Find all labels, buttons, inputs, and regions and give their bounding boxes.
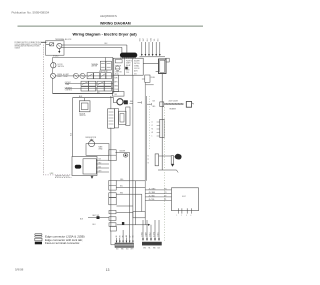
heater element: [164, 102, 184, 104]
svg-text:PUSH TO: PUSH TO: [126, 60, 133, 62]
svg-text:J2-3 BLU: J2-3 BLU: [149, 195, 155, 197]
row2 wire: [56, 75, 113, 77]
header rule: [18, 25, 204, 27]
wires to control board: [145, 190, 171, 200]
timer strip components: [108, 109, 115, 128]
svg-text:1B: 1B: [116, 236, 118, 238]
connector J15A pins: [117, 230, 133, 243]
heater housing capsule: [186, 102, 191, 108]
console top pins with labels: [142, 42, 160, 54]
svg-text:RED: RED: [120, 193, 123, 195]
svg-text:AEQ8000FS: AEQ8000FS: [100, 14, 117, 18]
row3 wire: [65, 82, 113, 84]
centrifugal switch dark contact: [75, 165, 81, 169]
svg-text:H1: H1: [151, 129, 153, 131]
svg-text:5Y: 5Y: [129, 236, 131, 238]
svg-text:WHT: WHT: [143, 38, 145, 41]
wire stub marks left of heater: [130, 102, 134, 104]
svg-text:WHT: WHT: [131, 249, 134, 251]
svg-text:SWITCH: SWITCH: [134, 63, 140, 65]
svg-text:YEL: YEL: [148, 247, 151, 249]
wire console to relay: [143, 63, 159, 65]
svg-text:RED: RED: [130, 101, 133, 103]
harness dashed wire: [149, 96, 151, 150]
svg-text:RED: RED: [99, 162, 102, 164]
svg-text:BLU: BLU: [126, 249, 129, 251]
terminal block meter circle: [57, 43, 62, 48]
relay aux box: [166, 58, 169, 62]
centrifugal switch box B: [72, 157, 97, 176]
svg-text:P4: P4: [165, 188, 167, 190]
timer output wires: [115, 152, 129, 154]
svg-text:2 WHT: 2 WHT: [146, 232, 148, 237]
fuse switch in terminal block: [46, 43, 50, 45]
fast-on on arrow wire: [122, 222, 124, 225]
svg-text:5/9/08: 5/9/08: [15, 268, 24, 272]
svg-text:BLU: BLU: [120, 186, 123, 188]
sensor S1 circle: [51, 63, 56, 68]
svg-text:WHT: WHT: [99, 170, 102, 172]
svg-text:LIMITER: LIMITER: [91, 66, 98, 68]
row3 thermostat boxes: [81, 81, 88, 86]
cycling thermostat narrow box on rail: [160, 119, 164, 137]
power relay K1: [159, 59, 167, 74]
drive motor circle: [89, 141, 95, 147]
thermal fuse box: [145, 75, 150, 82]
svg-text:MOTOR: MOTOR: [80, 113, 86, 115]
timer arrow wire: [117, 224, 148, 226]
motor enclosure box: [53, 58, 113, 94]
door switch assembly box: [79, 101, 90, 112]
svg-text:TMR: TMR: [114, 78, 117, 80]
svg-text:P1: P1: [165, 199, 167, 201]
svg-text:ORG: ORG: [150, 38, 152, 41]
motor enclosure bottom edge emphasis: [53, 92, 113, 94]
safety thermostat narrow box left: [155, 154, 158, 166]
note: power supply caution text: [15, 42, 49, 49]
svg-text:BELT SW: BELT SW: [93, 215, 100, 217]
svg-text:BLK: BLK: [71, 133, 73, 136]
harness junction box: [133, 212, 145, 218]
svg-text:4 ORG: 4 ORG: [154, 231, 156, 237]
console bottom cell: [113, 92, 125, 97]
svg-text:MTR: MTR: [114, 81, 117, 83]
svg-text:WIRING DIAGRAM: WIRING DIAGRAM: [100, 22, 131, 26]
svg-text:LIGHT: LIGHT: [57, 76, 62, 78]
svg-text:J2-2 RED: J2-2 RED: [149, 192, 156, 194]
svg-text:DRYNESS: DRYNESS: [65, 87, 72, 89]
wire from note to terminal block: [41, 41, 46, 43]
svg-text:Fast-on terminal connector.: Fast-on terminal connector.: [45, 241, 80, 245]
hi-limit thermostat cluster: [159, 155, 171, 157]
svg-text:BLU: BLU: [99, 166, 102, 168]
svg-text:OUTLET: OUTLET: [65, 82, 71, 84]
legend symbol locking connector: [35, 238, 42, 241]
svg-text:J2-4 YEL: J2-4 YEL: [149, 199, 155, 201]
svg-text:RED: RED: [153, 106, 156, 108]
BLK wire vertical: [72, 98, 74, 157]
belt switch wire: [88, 217, 109, 219]
timer strip upper: [113, 75, 119, 91]
timer main vertical: [110, 96, 112, 109]
heater relay box on rail: [160, 102, 164, 107]
console top pin labels: [140, 38, 160, 41]
svg-text:Publication No. 5995438534: Publication No. 5995438534: [12, 11, 50, 15]
svg-text:OFF: OFF: [114, 94, 117, 96]
svg-text:SWITCH: SWITCH: [58, 66, 65, 68]
motor ground arrow: [91, 175, 93, 178]
electronic control board: [172, 188, 199, 211]
heater ground dashed: [163, 107, 165, 242]
svg-text:3 BLU: 3 BLU: [150, 232, 152, 236]
wire harness left ladder: [129, 153, 131, 238]
svg-text:BLK: BLK: [153, 101, 156, 103]
svg-text:RED: RED: [153, 247, 156, 249]
legend symbol fast-on: [35, 242, 42, 245]
console contact labels: [114, 78, 118, 97]
push to start switch circle: [117, 99, 123, 105]
console edge connector dark capsule: [120, 53, 137, 57]
svg-text:HI-LIMIT: HI-LIMIT: [63, 74, 69, 76]
svg-text:COOL: COOL: [114, 89, 118, 91]
connector J15A body: [115, 243, 134, 247]
svg-text:TEMP SW: TEMP SW: [115, 71, 122, 73]
svg-text:240V 5400W: 240V 5400W: [169, 100, 179, 102]
terminal block TB1: [46, 41, 65, 55]
J15B labels above pins: [142, 231, 160, 237]
bus wire L2: [62, 46, 122, 48]
connector J15B body: [142, 242, 162, 246]
svg-text:P3: P3: [165, 192, 167, 194]
BLK wire horizontal: [73, 98, 117, 103]
svg-text:RED: RED: [121, 249, 124, 251]
legend symbol edge connector: [35, 234, 42, 236]
svg-text:BLK: BLK: [116, 249, 119, 251]
svg-text:Wiring Diagram - Electric Drye: Wiring Diagram - Electric Dryer (ad): [73, 33, 138, 37]
svg-text:BUZZER: BUZZER: [120, 151, 126, 153]
svg-text:SWITCH: SWITCH: [80, 115, 86, 117]
row1 thermal limiter boxes: [100, 61, 105, 70]
wire harness right ladder: [144, 82, 146, 225]
svg-text:H2: H2: [151, 132, 153, 134]
svg-text:ORG: ORG: [120, 179, 123, 181]
svg-text:GUIDE: GUIDE: [15, 48, 21, 50]
svg-text:BLK: BLK: [99, 159, 102, 161]
row2 fast-on terminals: [73, 73, 78, 78]
motor terminal box A: [86, 144, 109, 156]
wire into J15A: [111, 231, 115, 245]
main rail: [161, 74, 163, 171]
svg-text:BLU: BLU: [93, 224, 96, 226]
svg-text:COIL: COIL: [126, 72, 129, 74]
svg-text:DRIVE MOTOR: DRIVE MOTOR: [85, 137, 96, 139]
svg-text:FUSE: FUSE: [151, 77, 155, 79]
svg-text:C: C: [151, 136, 152, 138]
svg-text:BUZZER: BUZZER: [134, 60, 140, 62]
ground wire GRN dashed: [44, 45, 72, 175]
svg-text:YEL: YEL: [154, 38, 156, 41]
svg-text:ORG: ORG: [143, 247, 146, 249]
svg-text:DOOR: DOOR: [58, 64, 64, 66]
row4 boxes: [81, 87, 88, 91]
buzzer on wire: [123, 154, 128, 158]
neutral down arrow: [58, 49, 60, 52]
svg-text:RED: RED: [140, 38, 142, 41]
svg-text:13: 13: [106, 268, 110, 272]
svg-text:BLK: BLK: [158, 247, 161, 249]
sensor S2 circle: [51, 73, 56, 78]
svg-text:5 BLK: 5 BLK: [158, 233, 160, 237]
connector J15B feeder wires: [143, 220, 159, 239]
console box: [113, 58, 143, 75]
svg-text:3B: 3B: [123, 236, 125, 238]
long harness verticals: [130, 75, 147, 238]
switch output wires: [96, 160, 109, 172]
svg-text:CONTROL: CONTROL: [65, 89, 72, 91]
svg-text:SIG: SIG: [134, 73, 136, 75]
timer cam switches: [109, 150, 116, 161]
row2 thermostat boxes: [87, 73, 93, 79]
control board bottom pins: [179, 208, 192, 213]
connector J15B pins arrows: [142, 239, 160, 242]
row4 wire: [65, 88, 113, 90]
svg-text:J2-1 ORG: J2-1 ORG: [149, 188, 157, 190]
svg-text:OFF ON: OFF ON: [134, 68, 139, 70]
bus wire L1: [62, 44, 127, 46]
svg-text:BLK: BLK: [158, 38, 160, 41]
rail bottom wire: [158, 169, 177, 171]
svg-text:DRUM: DRUM: [57, 74, 62, 76]
bus under pins: [140, 56, 166, 58]
svg-text:BLU: BLU: [147, 38, 149, 41]
svg-text:P2: P2: [165, 195, 167, 197]
